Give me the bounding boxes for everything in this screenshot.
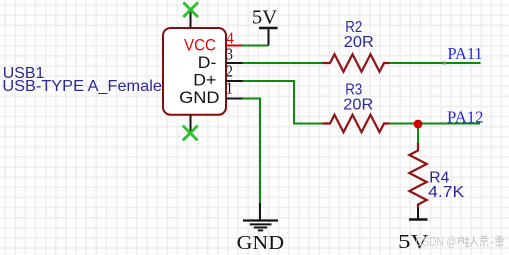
wire pin2 horizontal (243, 80, 295, 82)
svg-text:D-: D- (198, 54, 217, 72)
pin 4 (VCC) stub (226, 45, 242, 47)
connector USB1 body (163, 28, 226, 115)
svg-text:1: 1 (226, 79, 233, 98)
svg-text:CSDN @: CSDN @ (416, 235, 457, 249)
svg-text:4.7K: 4.7K (428, 184, 464, 201)
wire pin2 vertical drop (293, 80, 295, 124)
resistor R3 (323, 115, 390, 132)
power port 5V top: bar (259, 27, 278, 30)
resistor R4 (vertical) (409, 143, 426, 208)
svg-text:GND: GND (237, 232, 285, 254)
bottom hidden pin stub (190, 115, 192, 133)
pin 3 (D-) stub (226, 62, 243, 64)
net label anchor PA11 (443, 62, 446, 65)
svg-text:GND: GND (179, 89, 220, 107)
power port 5V bottom: stem (417, 208, 419, 219)
ground bar 1 (243, 219, 278, 221)
wire pin3 to R2 (243, 62, 323, 64)
svg-text:2: 2 (226, 61, 233, 80)
watermark CSDN (416, 235, 505, 249)
wire pin1 vertical to GND (259, 98, 261, 204)
svg-text:USB-TYPE A_Female: USB-TYPE A_Female (2, 78, 162, 95)
wire R2 to PA11 (390, 62, 481, 64)
wire R3 to PA12 (390, 123, 481, 125)
watermark CJK glyph strokes (459, 237, 505, 248)
resistor R2 (323, 54, 390, 71)
top hidden pin stub (190, 10, 192, 29)
wire pin1 horizontal (243, 98, 261, 100)
ground bar 2 (250, 223, 272, 225)
ground symbol stem (259, 203, 261, 220)
svg-text:PA12: PA12 (447, 107, 484, 126)
pin 1 (GND) stub (226, 98, 243, 100)
svg-text:20R: 20R (343, 97, 373, 114)
wire into R3 (293, 123, 323, 125)
svg-text:PA11: PA11 (448, 44, 483, 63)
svg-text:VCC: VCC (184, 36, 216, 54)
junction dot (414, 120, 423, 129)
no-ERC marker top (183, 2, 198, 17)
wire pin4 to 5V port (242, 45, 269, 47)
wire junction down to R4 (417, 124, 419, 144)
ground bar 4 (258, 229, 263, 231)
pin 2 (D+) stub (226, 80, 243, 82)
power port 5V bottom: bar (409, 218, 428, 221)
power port 5V top: stem (268, 29, 270, 46)
svg-text:20R: 20R (344, 34, 374, 51)
no-ERC marker bottom (183, 126, 198, 141)
svg-text:5V: 5V (252, 7, 278, 29)
ground bar 3 (254, 227, 267, 229)
svg-text:D+: D+ (193, 72, 216, 90)
net label anchor PA12 (443, 122, 446, 125)
